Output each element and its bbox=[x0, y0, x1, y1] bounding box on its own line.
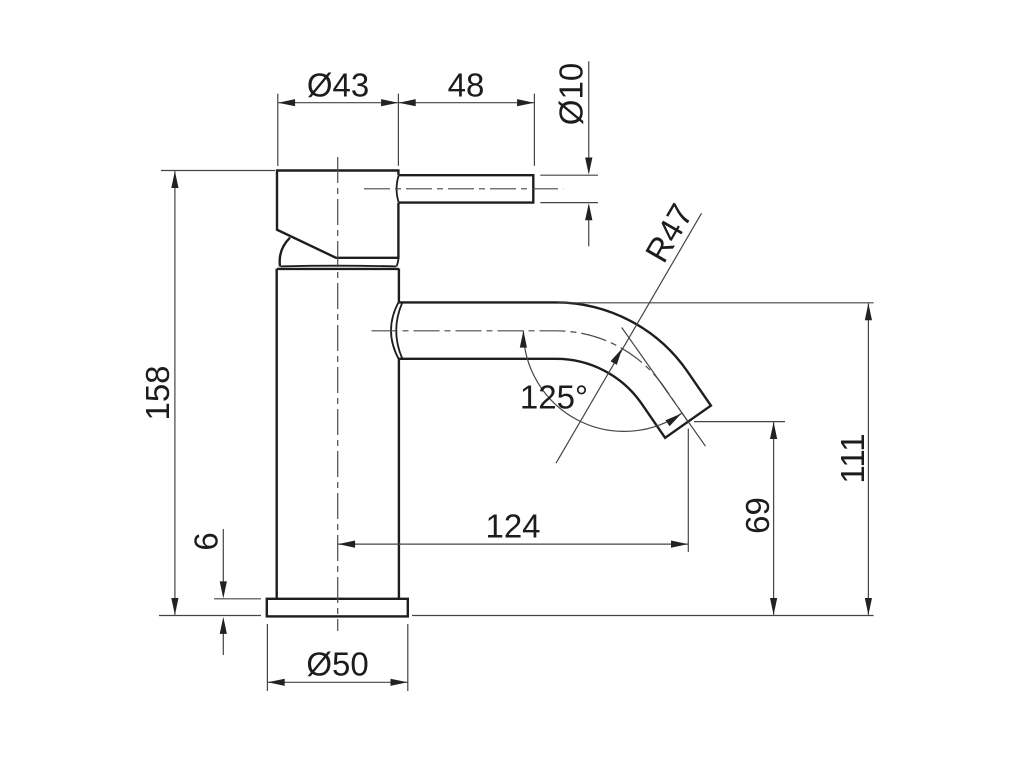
dimension 69 spout outlet height bbox=[694, 422, 785, 615]
svg-text:124: 124 bbox=[485, 508, 540, 545]
vertical centerline body axis bbox=[337, 157, 339, 631]
dimension 48 handle length bbox=[398, 66, 534, 165]
neck ball arc bbox=[280, 238, 290, 267]
handle joint fillet arc bbox=[397, 175, 399, 202]
cylinder body right edge lower bbox=[398, 359, 400, 598]
svg-text:69: 69 bbox=[739, 497, 776, 534]
cylinder body left edge bbox=[276, 269, 278, 599]
collar right slant bbox=[396, 258, 398, 267]
ground reference line left bbox=[159, 615, 261, 617]
cylinder body top edge bbox=[277, 268, 399, 270]
spout axis centerline bbox=[372, 331, 689, 422]
svg-text:6: 6 bbox=[188, 532, 225, 550]
svg-text:Ø43: Ø43 bbox=[307, 66, 369, 103]
dimension 158 total height bbox=[139, 171, 275, 616]
spout joint fillet inner arc bbox=[396, 303, 402, 359]
angle dimension 125 degrees bbox=[520, 328, 706, 447]
svg-text:111: 111 bbox=[834, 433, 871, 483]
ground reference line right bbox=[412, 615, 874, 617]
collar top arc bbox=[281, 265, 397, 268]
dimension 124 spout reach bbox=[338, 429, 688, 552]
spout joint fillet outer arc bbox=[391, 302, 399, 360]
base plate bbox=[267, 599, 408, 617]
svg-text:48: 48 bbox=[448, 66, 485, 103]
dimension Ø10 handle diameter bbox=[540, 61, 598, 246]
dimension Ø43 head width bbox=[278, 66, 399, 166]
radius leader R47 bbox=[556, 197, 702, 463]
cylinder body right edge upper bbox=[398, 269, 400, 302]
spout tube outline bbox=[399, 302, 711, 437]
svg-text:Ø50: Ø50 bbox=[306, 645, 368, 682]
faucet head (mixer cartridge housing) bbox=[277, 171, 398, 258]
handle lever outline bbox=[399, 175, 533, 202]
svg-text:158: 158 bbox=[139, 365, 176, 420]
dimension 111 spout top height bbox=[558, 303, 874, 615]
dimension 6 base plate thickness bbox=[188, 529, 261, 655]
dimension Ø50 base diameter bbox=[267, 624, 407, 691]
handle axis centerline bbox=[364, 188, 563, 190]
svg-text:125°: 125° bbox=[520, 378, 588, 415]
svg-text:Ø10: Ø10 bbox=[552, 63, 589, 125]
